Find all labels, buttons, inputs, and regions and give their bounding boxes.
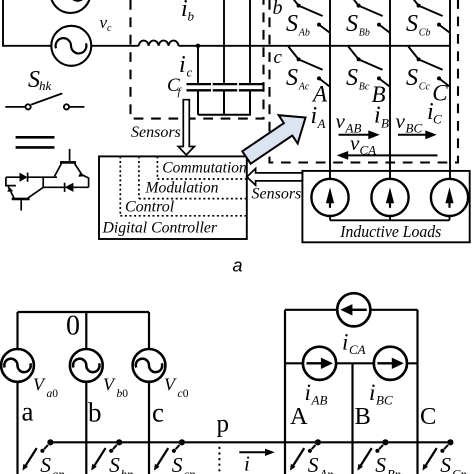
svg-text:i: i <box>342 330 348 355</box>
svg-text:0: 0 <box>66 311 80 342</box>
svg-text:i: i <box>369 380 375 405</box>
svg-text:0: 0 <box>183 388 189 400</box>
svg-text:A: A <box>290 403 308 430</box>
svg-text:A: A <box>317 116 326 131</box>
svg-text:a: a <box>22 396 34 426</box>
svg-text:c: c <box>187 65 193 80</box>
svg-text:Bc: Bc <box>359 81 370 92</box>
svg-text:B: B <box>381 116 389 131</box>
svg-text:S: S <box>346 11 358 37</box>
svg-text:cp: cp <box>184 468 196 474</box>
svg-text:S: S <box>286 11 298 37</box>
svg-text:S: S <box>286 65 298 91</box>
svg-text:bp: bp <box>121 468 134 474</box>
svg-text:p: p <box>217 411 230 438</box>
svg-text:ap: ap <box>52 468 65 474</box>
svg-text:b: b <box>88 398 102 428</box>
svg-text:C: C <box>420 403 436 430</box>
svg-text:Cc: Cc <box>419 81 431 92</box>
svg-text:C: C <box>432 81 448 106</box>
svg-text:S: S <box>172 453 183 474</box>
svg-text:Sensors: Sensors <box>131 124 181 141</box>
svg-text:Ap: Ap <box>319 468 334 474</box>
svg-text:i: i <box>305 380 311 405</box>
svg-text:b: b <box>273 0 283 19</box>
svg-text:Bp: Bp <box>387 468 401 474</box>
svg-text:S: S <box>308 453 319 474</box>
svg-text:S: S <box>375 453 386 474</box>
svg-text:a: a <box>233 256 243 276</box>
svg-text:C: C <box>433 112 442 127</box>
svg-text:0: 0 <box>52 388 58 400</box>
svg-text:c: c <box>274 47 283 68</box>
svg-text:Modulation: Modulation <box>145 180 219 197</box>
svg-text:Digital Controller: Digital Controller <box>102 220 218 237</box>
svg-text:CA: CA <box>360 143 377 158</box>
svg-text:S: S <box>346 65 358 91</box>
svg-text:v: v <box>396 109 406 133</box>
svg-text:i: i <box>311 103 318 129</box>
svg-text:CA: CA <box>349 342 366 357</box>
svg-text:Ab: Ab <box>298 27 310 38</box>
svg-text:Cp: Cp <box>452 468 467 474</box>
svg-text:v: v <box>350 131 360 155</box>
svg-text:S: S <box>40 453 51 474</box>
svg-text:hk: hk <box>39 78 52 93</box>
svg-text:i: i <box>374 103 381 129</box>
svg-text:S: S <box>406 11 418 37</box>
svg-text:BC: BC <box>376 393 393 408</box>
svg-text:Commutation: Commutation <box>162 160 247 177</box>
svg-text:0: 0 <box>122 388 128 400</box>
svg-text:c: c <box>107 23 112 34</box>
svg-text:BC: BC <box>406 121 423 136</box>
svg-text:Bb: Bb <box>359 27 370 38</box>
svg-text:Sensors: Sensors <box>252 186 302 203</box>
svg-text:v: v <box>336 109 346 133</box>
svg-text:S: S <box>440 453 451 474</box>
svg-text:Inductive Loads: Inductive Loads <box>339 222 441 241</box>
svg-text:S: S <box>109 453 120 474</box>
svg-text:i: i <box>244 452 250 474</box>
svg-text:i: i <box>179 52 186 78</box>
svg-text:b: b <box>188 9 195 24</box>
svg-text:Cb: Cb <box>419 27 431 38</box>
svg-text:B: B <box>355 403 371 430</box>
svg-text:S: S <box>406 65 418 91</box>
svg-text:c: c <box>152 398 164 428</box>
svg-text:Control: Control <box>125 199 175 216</box>
svg-text:Ac: Ac <box>298 81 310 92</box>
svg-text:AB: AB <box>311 393 328 408</box>
